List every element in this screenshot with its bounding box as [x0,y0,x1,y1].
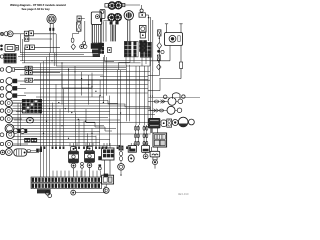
svg-text:4E3-010: 4E3-010 [178,192,189,196]
svg-text:See page 2-34 for key: See page 2-34 for key [22,7,51,11]
